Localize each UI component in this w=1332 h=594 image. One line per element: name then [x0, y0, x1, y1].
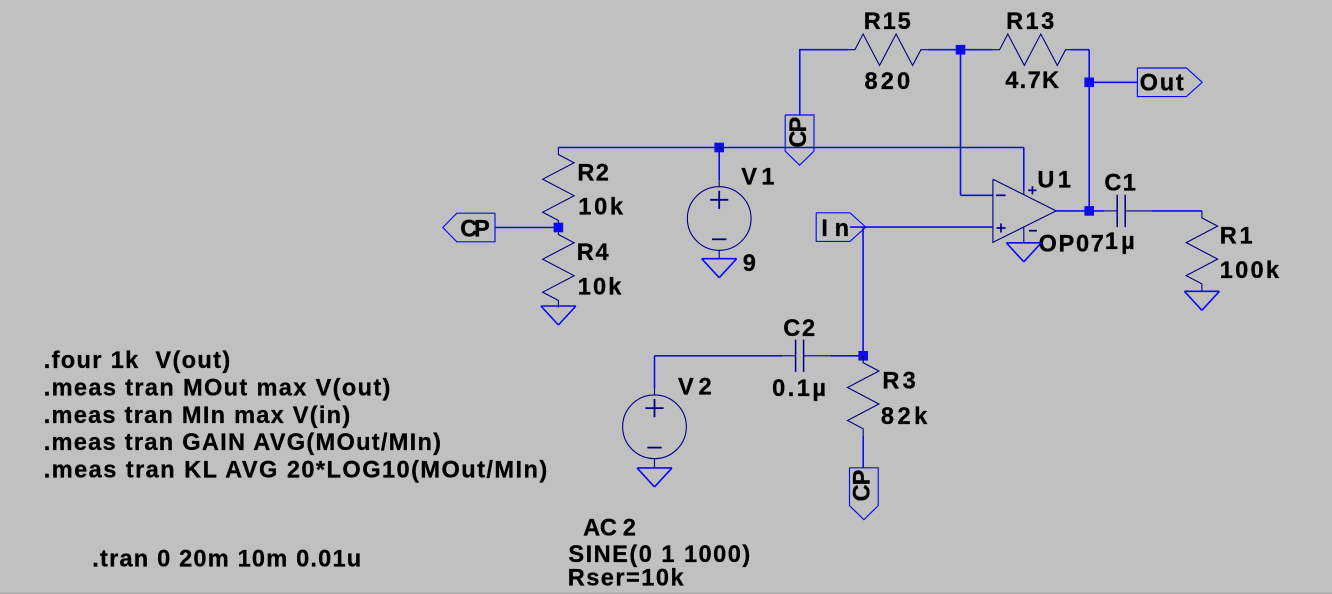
svg-text:.meas tran GAIN AVG(MOut/MIn): .meas tran GAIN AVG(MOut/MIn) [44, 430, 441, 456]
wire: V1 top [718, 148, 720, 181]
svg-text:Out: Out [1140, 70, 1184, 96]
svg-text:0.1µ: 0.1µ [772, 376, 826, 402]
wire: C2 to junction [830, 355, 863, 357]
ground: under R4 [541, 305, 576, 307]
junction: divider node [554, 223, 564, 233]
wire: In node vertical [862, 227, 864, 356]
capacitor C2 [782, 355, 795, 357]
ground: under V2 [637, 467, 672, 469]
wire: In to non-inverting input [850, 226, 993, 228]
wire: stub to Out flag [1089, 81, 1137, 83]
resistor R4 [543, 228, 574, 308]
svg-text:R15: R15 [864, 9, 911, 35]
resistor R15 [848, 34, 928, 65]
svg-text:U1: U1 [1037, 167, 1071, 193]
wire: C2 net horizontal [655, 355, 783, 357]
resistor R1 [1186, 211, 1217, 291]
flag CP bottom [850, 468, 879, 520]
wire: V+ supply drop [1023, 148, 1025, 191]
resistor R13 [993, 34, 1073, 65]
wire: vertical drop to CP flag (top) [799, 49, 801, 115]
wire: feedback vertical [960, 50, 962, 196]
svg-text:82k: 82k [881, 404, 928, 430]
ground: under V1 [702, 258, 737, 260]
svg-text:.meas tran MOut max V(out): .meas tran MOut max V(out) [44, 375, 391, 401]
flag CP top [785, 115, 814, 165]
svg-text:R3: R3 [882, 369, 915, 395]
wire: C1 to R1 [1152, 210, 1202, 212]
ground: op-amp V- [1006, 242, 1041, 244]
wire: main CP net horizontal [558, 147, 1023, 149]
svg-text:100k: 100k [1220, 258, 1280, 284]
junction: output node [1084, 206, 1094, 216]
resistor R2 [543, 148, 574, 228]
svg-text:4.7K: 4.7K [1005, 68, 1059, 94]
capacitor C1 [1104, 210, 1117, 212]
wire: top-left corner segment to R15 [800, 49, 848, 51]
wire: CP flag left stub [495, 227, 558, 229]
bottom window edge [0, 593, 1332, 594]
flag CP left [443, 213, 495, 242]
svg-text:.four 1k V(out): .four 1k V(out) [44, 348, 231, 374]
svg-text:R4: R4 [577, 240, 609, 266]
svg-text:9: 9 [743, 251, 756, 277]
svg-text:AC 2: AC 2 [583, 516, 636, 542]
resistor R3 [848, 356, 879, 436]
wire: vertical from corner down to output junction [1088, 50, 1090, 211]
wire: R15 to R13 [928, 49, 993, 51]
wire: R13 to corner [1071, 49, 1090, 51]
wire: output to C1 [1056, 210, 1104, 212]
junction: C2/R3/In node [858, 351, 868, 361]
flag Out [1137, 68, 1202, 97]
op-amp U1 [993, 179, 1056, 242]
wire: R3 to CP flag bottom [862, 436, 864, 468]
wire: V2 top [654, 356, 656, 389]
svg-text:In: In [821, 216, 849, 242]
svg-text:R1: R1 [1220, 224, 1253, 250]
svg-text:10k: 10k [578, 194, 624, 220]
voltage source V2 [654, 389, 656, 395]
svg-text:10k: 10k [578, 274, 623, 300]
svg-text:R2: R2 [577, 161, 609, 187]
svg-text:CP: CP [786, 117, 812, 148]
svg-text:820: 820 [865, 69, 911, 95]
svg-text:CP: CP [850, 470, 876, 502]
svg-text:C2: C2 [783, 316, 815, 342]
svg-text:.meas tran MIn max V(in): .meas tran MIn max V(in) [44, 403, 351, 429]
svg-text:SINE(0 1 1000): SINE(0 1 1000) [568, 542, 750, 568]
junction: R15/R13 feedback node [956, 45, 966, 55]
svg-text:R13: R13 [1006, 9, 1054, 35]
junction: Out node [1084, 78, 1094, 88]
wire: feedback into inverting input [961, 194, 993, 196]
svg-text:OP07: OP07 [1039, 231, 1104, 257]
voltage source V1 [718, 180, 720, 186]
ground: under R1 [1184, 290, 1219, 292]
junction: V1 node [714, 143, 724, 153]
svg-text:CP: CP [460, 216, 490, 242]
flag In [816, 213, 866, 242]
svg-text:.meas tran KL AVG 20*LOG10(MOu: .meas tran KL AVG 20*LOG10(MOut/MIn) [44, 457, 548, 483]
svg-text:C1: C1 [1104, 171, 1136, 197]
